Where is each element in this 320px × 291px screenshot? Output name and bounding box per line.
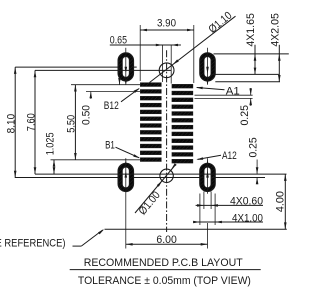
ref line B1 center	[51, 159, 141, 161]
ref line slot bottom (4X1.65 bottom)	[211, 73, 279, 75]
dimension 3.90 (top, pad span)	[139, 25, 141, 81]
dimension 4X2.05	[278, 45, 280, 82]
svg-text:4.00: 4.00	[275, 191, 287, 212]
dimension 0.25 (A-row gap, upper)	[195, 94, 253, 96]
vertical center line (dash-dot)	[166, 50, 168, 232]
ref line pad bottom edge (4X2.05 bottom)	[215, 81, 280, 83]
svg-text:A1: A1	[226, 86, 240, 98]
svg-text:4X2.05: 4X2.05	[270, 13, 282, 46]
svg-text:0.65: 0.65	[110, 35, 127, 47]
dimension 0.65 (gap between pad columns)	[162, 45, 164, 82]
dimension 4X1.65	[254, 45, 256, 75]
ref line bottom pad centers seg2	[133, 177, 203, 179]
contact pads column B (left, B12 top to B1 bottom)	[140, 83, 161, 87]
svg-text:6.00: 6.00	[156, 234, 176, 246]
svg-text:0.50: 0.50	[81, 105, 93, 125]
svg-text:1.025: 1.025	[44, 133, 56, 156]
label A12	[198, 155, 222, 159]
svg-text:4X1.00: 4X1.00	[232, 212, 263, 224]
ref line top pad centers stub	[134, 66, 137, 68]
ref line B11 center	[86, 91, 140, 93]
label B12	[121, 89, 139, 102]
hole Ø1.00 (bottom)	[160, 169, 173, 182]
dimension 0.25 (hole/pad offset, lower)	[256, 160, 258, 175]
ref line top hole center (7.60 top)	[35, 69, 171, 71]
oval mounting pad P3 bottom-left	[118, 163, 133, 191]
svg-text:5.50: 5.50	[66, 115, 78, 133]
svg-text:4X1.65: 4X1.65	[245, 13, 257, 46]
shell edge reference line	[105, 228, 287, 230]
leader Ø1.00	[135, 167, 174, 214]
svg-text:0.25: 0.25	[239, 105, 251, 126]
hole Ø1.10 (top)	[159, 63, 174, 78]
ref line B12 center	[71, 84, 140, 86]
dimension 4X1.00 (pad width)	[199, 194, 201, 226]
svg-text:7.60: 7.60	[25, 113, 37, 131]
label B1	[116, 147, 140, 158]
dimension 4X0.60 (slot width)	[203, 192, 205, 210]
dimension 8.10	[14, 67, 16, 177]
note (shell edge reference) leader	[73, 245, 82, 247]
ref line bottom pad centers seg3	[211, 177, 265, 179]
svg-text:B12: B12	[104, 100, 119, 112]
svg-text:0.25: 0.25	[247, 137, 259, 157]
ref line top pad top edge (4X1.65/2.05 top)	[214, 53, 289, 55]
contact pads column A (right, A1 top to A12 bottom)	[172, 84, 193, 88]
leader Ø1.10	[150, 16, 236, 82]
svg-text:RECOMMENDED P.C.B LAYOUT: RECOMMENDED P.C.B LAYOUT	[84, 257, 243, 269]
oval mounting pad P2 top-right	[200, 53, 215, 81]
ref line bottom hole center (7.60 bottom / 4.00 top)	[35, 173, 287, 175]
svg-text:B1: B1	[105, 139, 115, 151]
svg-text:4X0.60: 4X0.60	[230, 196, 263, 208]
label A1	[197, 88, 225, 90]
ref line top pad centers (8.10 top)	[15, 66, 118, 68]
svg-text:3.90: 3.90	[157, 17, 176, 29]
slot reference arrows inside oval pads	[125, 67, 128, 74]
ref line bottom pad centers (8.10 bottom)	[15, 177, 118, 179]
dimension 4.00	[284, 174, 286, 229]
pad axis end arrows	[125, 80, 127, 85]
title underline	[70, 269, 261, 271]
oval pad center lines	[125, 48, 127, 85]
dimension 7.60	[34, 70, 36, 174]
dimension 6.00	[207, 223, 209, 249]
svg-text:E REFERENCE): E REFERENCE)	[0, 238, 66, 250]
oval mounting pad P4 bottom-right	[200, 163, 215, 191]
svg-text:TOLERANCE ± 0.05mm (TOP VIEW): TOLERANCE ± 0.05mm (TOP VIEW)	[78, 275, 251, 287]
svg-text:8.10: 8.10	[6, 114, 18, 134]
svg-text:A12: A12	[222, 150, 237, 162]
oval mounting pad P1 top-left	[118, 53, 133, 81]
